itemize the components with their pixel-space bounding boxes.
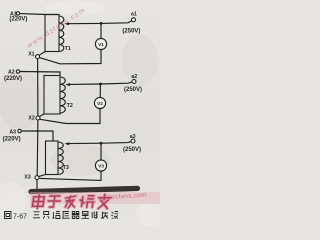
svg-text:(220V): (220V) [4,76,22,82]
wire V1 bottom to X1 [39,50,101,64]
node junction a1/V1 [100,22,103,25]
svg-text:a3: a3 [130,134,136,140]
transformer T1 winding [59,16,64,51]
caption 图 7-67 [5,212,12,219]
transformer T2 winding [60,77,65,113]
svg-text:T3: T3 [63,165,69,171]
svg-text:V3: V3 [98,163,104,169]
svg-text:a2: a2 [131,74,137,80]
watermark 电子发烧友 pink glyphs [32,195,111,209]
wire T1 winding bottom to X1 [39,52,45,56]
node junction a2/V2 [99,83,102,86]
svg-text:X2: X2 [28,115,34,121]
wire T2 winding bottom to X2 [40,114,44,116]
wire star bus X2-X3 [36,120,39,176]
svg-text:7-67: 7-67 [13,214,27,221]
svg-text:X1: X1 [28,51,34,57]
terminal a1 [132,18,136,22]
voltmeter V2 [94,97,105,108]
wire V2 top lead [99,85,101,98]
wire A3 input [22,131,54,141]
svg-text:V2: V2 [97,101,103,107]
transformer T3 core rectangle [46,141,59,175]
node crossing bus/A2 [37,71,39,73]
terminal A3 [18,129,21,132]
node junction a3/V3 [100,142,103,145]
transformer T2 core rectangle [44,76,60,115]
transformer T3 winding [58,142,63,175]
terminal a2 [132,80,136,84]
terminal X2 [36,116,40,120]
svg-text:X3: X3 [24,174,30,180]
watermark pink wash band [30,192,160,204]
caption 三只调压器星形接线 [33,212,118,219]
wiper arrow T1 [64,22,69,25]
terminal X3 [35,176,39,180]
wire A2 input [20,72,60,76]
voltmeter V3 [95,160,106,171]
wiper arrow T3 [64,142,69,145]
svg-text:T1: T1 [65,46,71,52]
svg-text:(220V): (220V) [3,136,21,142]
node crossing bus/A3 [37,130,39,132]
svg-text:(250V): (250V) [124,87,142,93]
wire T3 wiper to a3 [67,142,131,144]
wire V3 bottom to X3 [40,171,101,180]
wire bus stub below X3 [36,180,38,190]
svg-text:A3: A3 [9,129,16,135]
transformer T1 core rectangle [45,15,59,52]
dark streak band above caption [31,188,138,191]
wire T1 wiper to a1 [67,21,132,24]
svg-text:a1: a1 [131,12,137,18]
wire T2 wiper to a2 [68,82,132,84]
wire star bus X1-X2 [37,59,39,116]
terminal A1 [16,12,19,15]
terminal A2 [16,70,19,73]
terminal a3 [131,139,135,143]
wiper arrow T2 [65,83,70,86]
wire V3 top lead [100,144,102,160]
voltmeter V1 [95,38,106,49]
svg-text:A2: A2 [8,69,15,75]
svg-text:(250V): (250V) [123,147,141,153]
wire V2 bottom to X2 [40,109,100,124]
svg-text:(220V): (220V) [9,17,27,23]
wire A1 input [20,13,59,16]
svg-text:V1: V1 [98,42,104,48]
svg-text:T2: T2 [67,103,73,109]
svg-text:(250V): (250V) [122,29,140,35]
wire V1 top lead [100,24,102,38]
terminal X1 [36,55,40,59]
wire T3 winding bottom to X3 [39,175,46,177]
